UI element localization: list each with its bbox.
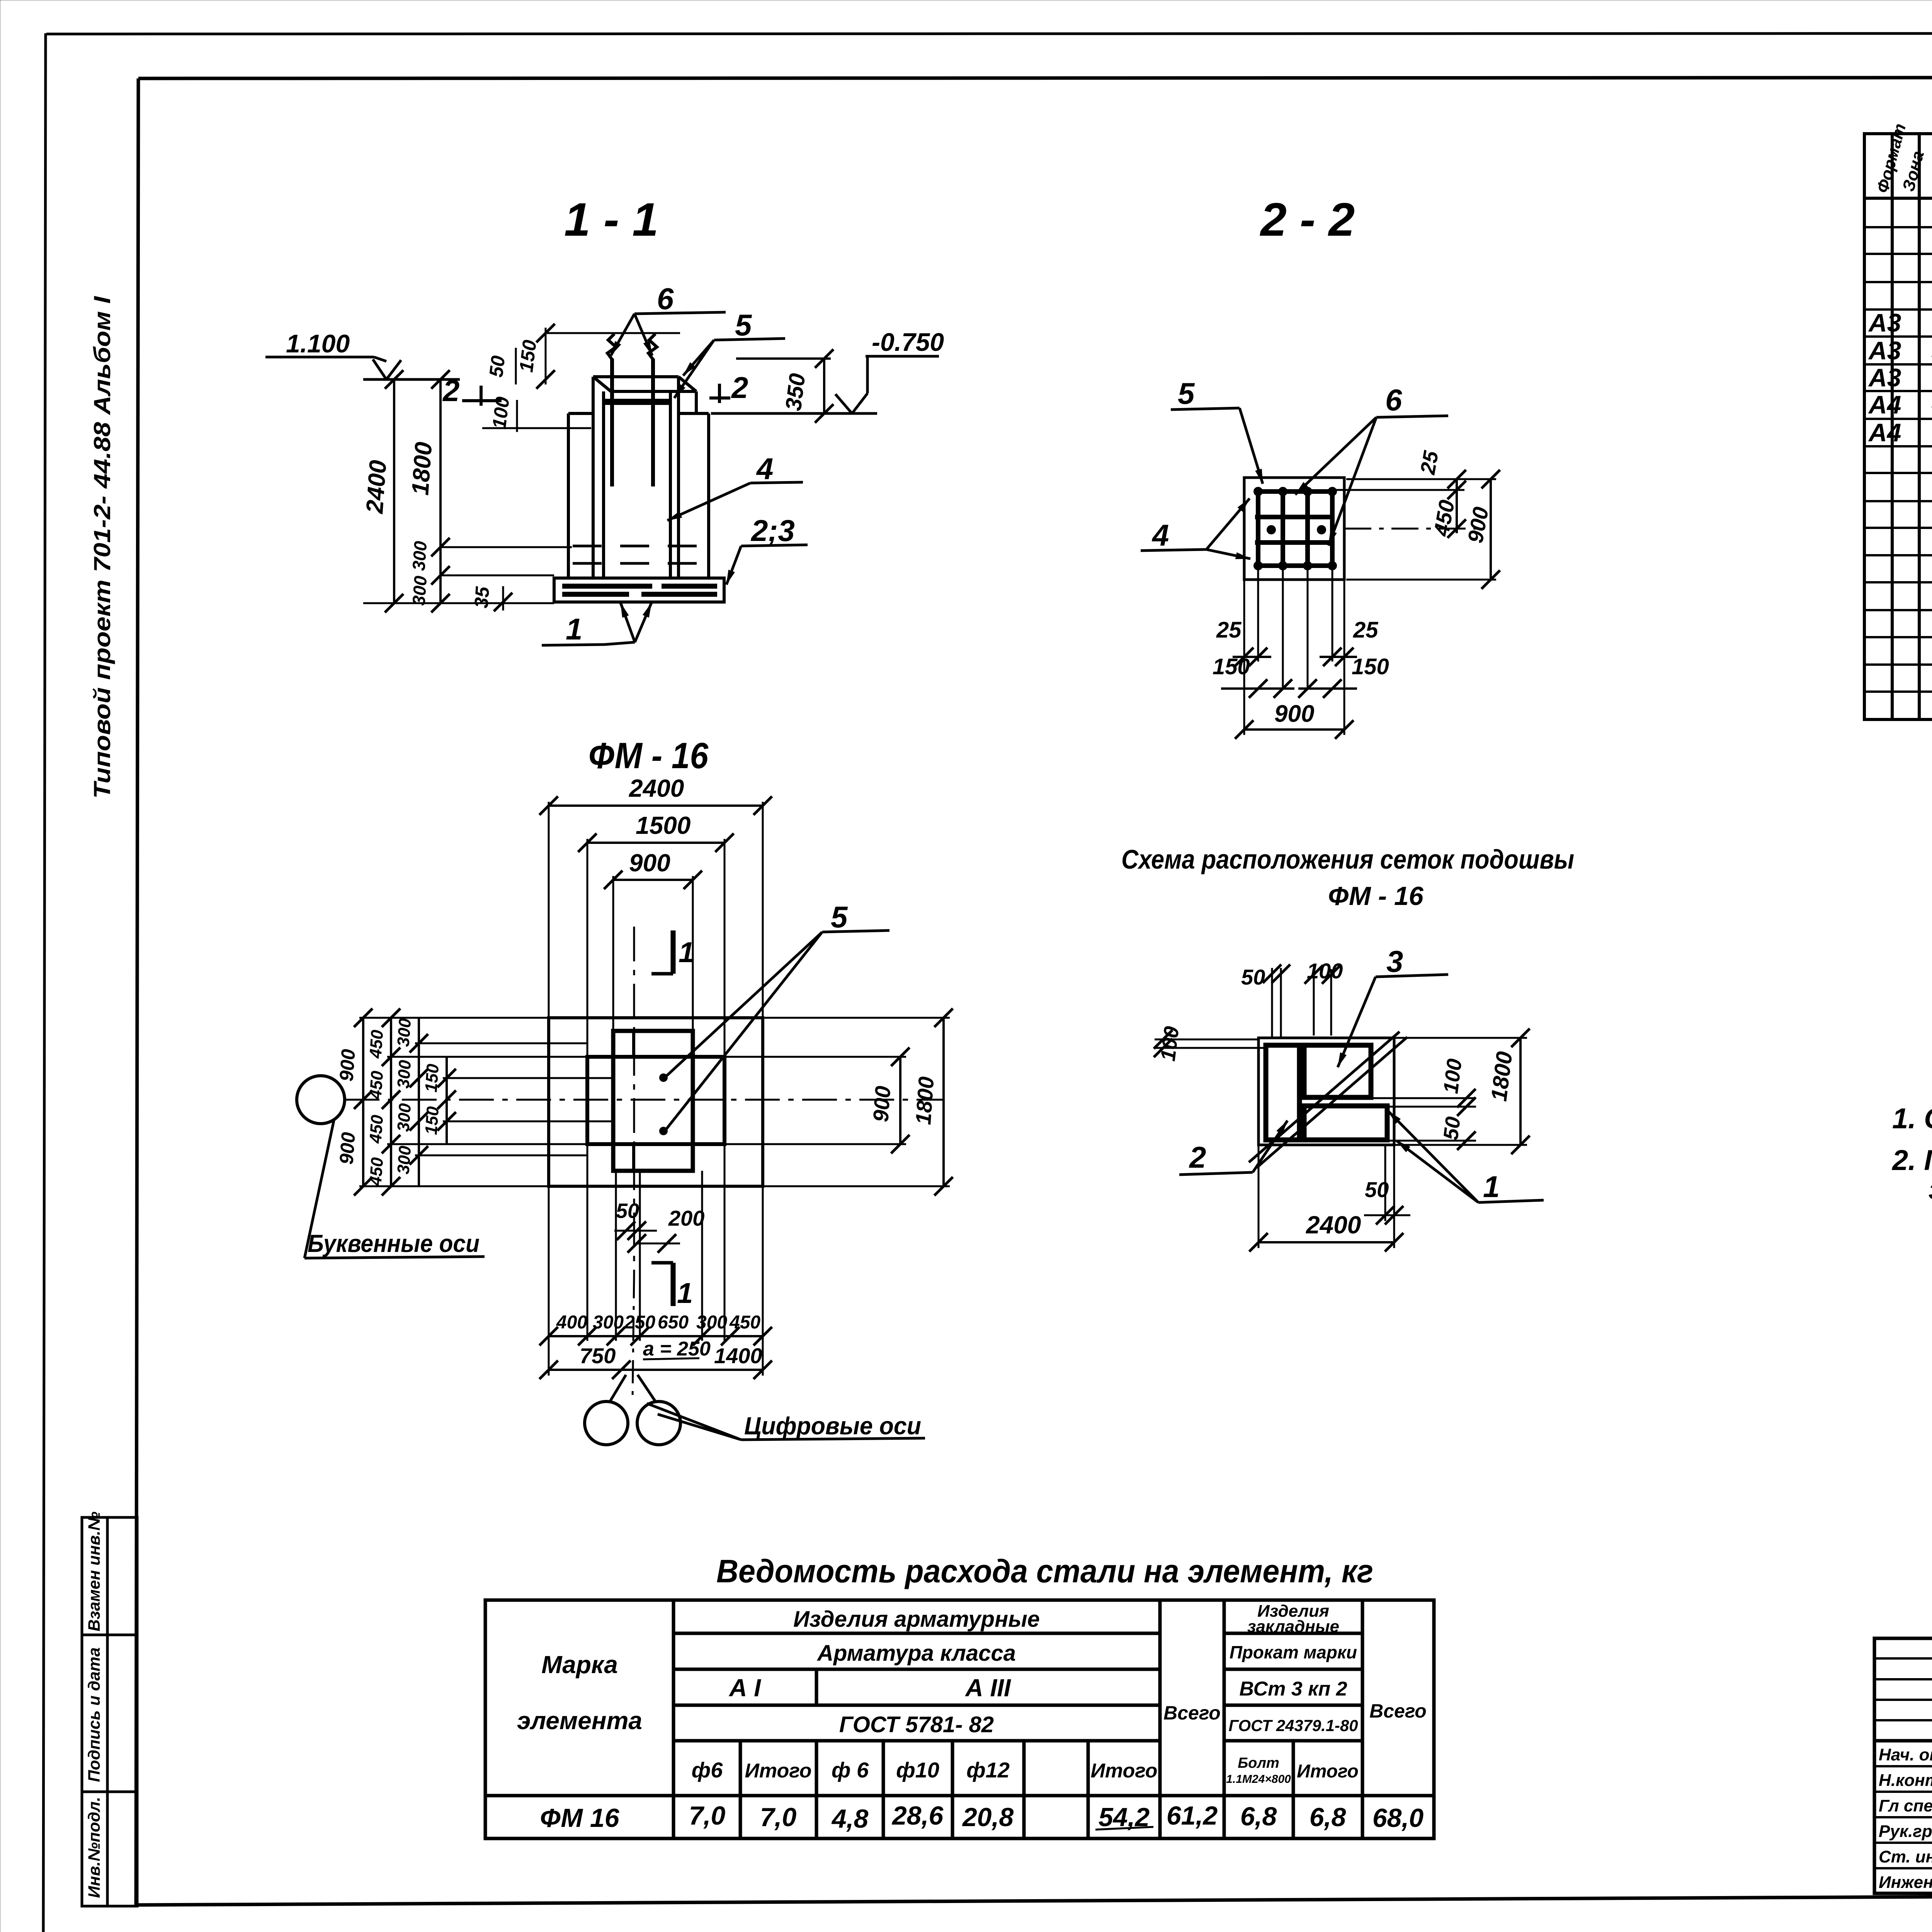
svg-text:450: 450	[729, 1312, 760, 1333]
svg-text:25: 25	[1216, 617, 1242, 643]
svg-text:300: 300	[394, 1017, 415, 1047]
svg-text:2400: 2400	[361, 459, 392, 515]
svg-text:Всего: Всего	[1369, 1700, 1427, 1722]
svg-text:1.1М24×800: 1.1М24×800	[1226, 1773, 1291, 1786]
svg-text:900: 900	[868, 1085, 895, 1123]
svg-text:Ст. инж.: Ст. инж.	[1879, 1847, 1932, 1866]
svg-text:1. Схема расположения ф: 1. Схема расположения фундаментов на лис…	[1892, 1102, 1932, 1134]
svg-text:68,0: 68,0	[1372, 1803, 1424, 1833]
svg-text:2: 2	[1189, 1140, 1206, 1174]
svg-text:5: 5	[1178, 376, 1195, 410]
svg-text:1800: 1800	[911, 1076, 939, 1126]
svg-text:ГОСТ 24379.1-80: ГОСТ 24379.1-80	[1229, 1716, 1358, 1735]
svg-text:Итого: Итого	[1091, 1760, 1158, 1782]
svg-text:2;3: 2;3	[750, 514, 795, 548]
svg-text:Прокат марки: Прокат марки	[1230, 1642, 1357, 1662]
svg-text:61,2: 61,2	[1167, 1801, 1218, 1830]
svg-text:450: 450	[366, 1114, 387, 1144]
svg-text:Итого: Итого	[745, 1760, 812, 1782]
svg-text:50: 50	[616, 1199, 639, 1223]
svg-text:1: 1	[679, 936, 694, 968]
svg-text:300: 300	[408, 575, 430, 606]
svg-text:28,6: 28,6	[891, 1801, 944, 1830]
svg-text:закладные: закладные	[1247, 1617, 1339, 1636]
svg-text:Зона: Зона	[1899, 149, 1928, 193]
svg-text:Инв.№подл.: Инв.№подл.	[85, 1797, 104, 1898]
svg-text:900: 900	[335, 1131, 359, 1165]
svg-text:900: 900	[1463, 505, 1493, 545]
svg-text:400: 400	[556, 1312, 587, 1333]
svg-text:25: 25	[1416, 449, 1443, 477]
svg-text:7,0: 7,0	[760, 1803, 797, 1832]
svg-text:900: 900	[335, 1048, 359, 1082]
svg-text:Схема расположения сеток по: Схема расположения сеток подошвы	[1121, 844, 1574, 874]
svg-text:150: 150	[1213, 654, 1250, 679]
svg-text:20,8: 20,8	[962, 1803, 1014, 1832]
svg-text:100: 100	[1439, 1058, 1466, 1095]
svg-text:А3: А3	[1868, 308, 1901, 337]
svg-text:300: 300	[408, 540, 430, 571]
svg-text:Буквенные оси: Буквенные оси	[308, 1230, 480, 1257]
svg-text:ВСт 3 кп 2: ВСт 3 кп 2	[1239, 1678, 1347, 1700]
svg-text:Ведомость расхода стали на: Ведомость расхода стали на элемент, кг	[716, 1553, 1373, 1589]
svg-text:1400: 1400	[714, 1344, 762, 1368]
svg-text:ФМ 16: ФМ 16	[540, 1803, 619, 1833]
svg-text:300: 300	[593, 1312, 624, 1333]
svg-text:Гл спец .: Гл спец .	[1879, 1796, 1932, 1815]
svg-text:350: 350	[781, 372, 810, 412]
svg-text:300: 300	[394, 1102, 415, 1132]
svg-text:Всего: Всего	[1163, 1702, 1221, 1724]
svg-text:35: 35	[470, 585, 493, 609]
svg-text:А4: А4	[1868, 418, 1901, 447]
svg-text:ф12: ф12	[966, 1758, 1010, 1782]
svg-text:Итого: Итого	[1297, 1761, 1359, 1782]
svg-text:a = 250: a = 250	[643, 1338, 711, 1360]
svg-text:300: 300	[394, 1145, 415, 1175]
svg-text:ГОСТ 5781- 82: ГОСТ 5781- 82	[839, 1712, 994, 1737]
svg-text:250: 250	[624, 1312, 655, 1333]
svg-text:Арматура класса: Арматура класса	[816, 1641, 1016, 1666]
svg-text:4: 4	[1151, 518, 1169, 552]
svg-text:50: 50	[1439, 1116, 1465, 1141]
svg-text:100: 100	[488, 396, 514, 430]
svg-text:2400: 2400	[629, 774, 684, 802]
svg-text:150: 150	[422, 1105, 442, 1135]
svg-text:6,8: 6,8	[1310, 1803, 1346, 1832]
svg-text:Изделия арматурные: Изделия арматурные	[793, 1607, 1040, 1632]
svg-text:А III: А III	[964, 1674, 1011, 1702]
svg-text:ФМ - 16: ФМ - 16	[1328, 881, 1424, 911]
svg-text:Подпись и дата: Подпись и дата	[85, 1647, 104, 1782]
svg-text:1800: 1800	[1486, 1050, 1517, 1103]
svg-text:450: 450	[366, 1070, 387, 1100]
svg-text:150: 150	[422, 1063, 442, 1093]
svg-text:900: 900	[629, 849, 670, 877]
svg-text:25: 25	[1353, 617, 1378, 643]
svg-text:1500: 1500	[636, 811, 690, 839]
svg-text:5: 5	[831, 900, 848, 934]
svg-text:А3: А3	[1868, 363, 1901, 392]
svg-text:6,8: 6,8	[1240, 1802, 1277, 1831]
svg-text:1: 1	[566, 612, 582, 646]
svg-text:300: 300	[696, 1312, 727, 1333]
svg-text:Взамен инв.№: Взамен инв.№	[85, 1512, 104, 1631]
svg-text:5: 5	[735, 308, 752, 342]
svg-text:ф 6: ф 6	[832, 1758, 869, 1782]
svg-text:А I: А I	[728, 1674, 761, 1702]
svg-text:150: 150	[1352, 654, 1389, 679]
svg-text:элемента: элемента	[517, 1707, 642, 1735]
svg-text:2: 2	[731, 371, 748, 405]
svg-text:Нач. отд .: Нач. отд .	[1879, 1745, 1932, 1764]
svg-text:750: 750	[580, 1344, 616, 1368]
svg-text:А4: А4	[1868, 390, 1901, 419]
svg-text:1: 1	[677, 1277, 693, 1309]
svg-text:Марка: Марка	[541, 1651, 618, 1679]
svg-text:А3: А3	[1868, 336, 1901, 365]
svg-text:650: 650	[658, 1312, 689, 1333]
svg-text:Типовой проект 701-2- 44.88: Типовой проект 701-2- 44.88 Альбом I	[89, 296, 115, 799]
svg-text:Болт: Болт	[1238, 1755, 1279, 1771]
svg-text:6: 6	[657, 282, 674, 316]
svg-text:300: 300	[394, 1059, 415, 1089]
svg-text:1: 1	[1483, 1170, 1500, 1204]
svg-text:-0.750: -0.750	[872, 328, 944, 356]
svg-text:6: 6	[1385, 383, 1402, 417]
svg-text:450: 450	[366, 1029, 387, 1059]
svg-text:1 - 1: 1 - 1	[564, 193, 658, 246]
svg-text:200: 200	[668, 1206, 704, 1230]
svg-text:4: 4	[756, 452, 773, 486]
svg-text:ФМ - 16: ФМ - 16	[588, 735, 709, 776]
svg-text:Рук.гр.: Рук.гр.	[1879, 1822, 1932, 1841]
svg-text:50: 50	[485, 354, 509, 378]
svg-text:900: 900	[1274, 701, 1314, 727]
svg-text:ф6: ф6	[692, 1758, 723, 1782]
svg-text:Инженер: Инженер	[1879, 1873, 1932, 1892]
svg-text:3: 3	[1386, 944, 1403, 978]
svg-text:150: 150	[515, 339, 541, 374]
svg-text:1800: 1800	[407, 441, 437, 496]
svg-text:7,0: 7,0	[689, 1801, 726, 1830]
svg-text:Цифровые оси: Цифровые оси	[744, 1412, 921, 1440]
svg-text:50: 50	[1241, 965, 1265, 989]
svg-text:2: 2	[442, 374, 459, 408]
svg-text:ф10: ф10	[896, 1758, 939, 1782]
svg-text:2 - 2: 2 - 2	[1260, 193, 1355, 246]
svg-text:защитный слой, указанный: защитный слой, указанный на чертеже.	[1929, 1173, 1932, 1205]
svg-text:450: 450	[366, 1156, 387, 1187]
svg-text:2400: 2400	[1306, 1211, 1361, 1239]
svg-text:Н.контр.: Н.контр.	[1879, 1771, 1932, 1790]
svg-text:2. При бетонировании фун: 2. При бетонировании фундаментов обеспеч…	[1891, 1144, 1932, 1176]
svg-text:4,8: 4,8	[831, 1804, 869, 1833]
svg-text:1.100: 1.100	[286, 329, 350, 358]
